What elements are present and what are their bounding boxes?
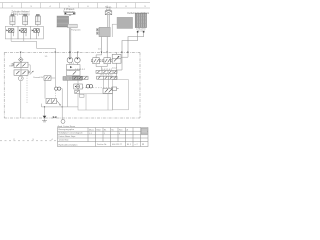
component on block B edge [112,87,119,90]
wire gauge down to tank line [20,81,22,118]
tank pictorial [117,17,133,28]
svg-text:Rev: Rev [119,129,123,131]
wire pump to CV1 [96,53,102,58]
cooler terminals [136,28,146,33]
svg-text:Pumpentr.: Pumpentr. [71,28,81,31]
cylinder CY2 [23,14,28,24]
cooler pictorial [135,13,146,27]
relief valve RV1 [112,53,121,64]
cylinder CY3 [35,14,40,24]
coupling symbol CP1 [55,87,61,90]
enclosure chain boundary [4,53,140,119]
valve box V2 [18,26,31,39]
svg-text:Mass: Mass [89,129,94,131]
wire strainer to pump [108,15,109,28]
small bowtie on chain [53,116,57,118]
svg-text:Lifting Lowering: Lifting Lowering [11,12,30,16]
wire motor shaft [69,28,70,58]
flow meter FM1 [86,85,92,88]
wire motor feed [69,14,70,16]
valve RB1 [103,88,113,93]
valve row LRA [73,76,89,79]
frame top ruler lines [0,3,150,8]
wire CV merge [96,64,107,71]
wire bus dashed lower [54,90,56,98]
manifold block MB2 [66,70,80,76]
manifold block MB1 [66,63,80,70]
wire pump to tank [112,24,117,37]
strainer label [105,6,112,11]
wire drain B [61,89,63,120]
wire MA1 down [44,80,46,98]
wire pump down A [101,37,103,53]
motor M1 pictorial [57,16,69,27]
valve row RRA [96,70,117,73]
wire to valve LV1 [20,60,22,63]
wire cooler line A [122,33,138,53]
subplate SP1 [63,77,82,81]
wire inside manifold A [85,94,87,110]
cylinder CY1 [10,14,15,24]
junction dots [44,106,63,107]
pump symbol PU1 [67,57,73,63]
valve box V3 [31,26,44,39]
svg-text:Drossel RV: Drossel RV [33,77,44,79]
wire left valve drop [77,80,79,84]
frame bottom ruler dotted [0,140,57,142]
wire subplate down [67,80,69,107]
svg-text:Nr.: Nr. [112,129,115,131]
drain arrow [43,116,47,119]
svg-text:Datum Name Gepr.: Datum Name Gepr. [59,135,77,138]
strainer F1 [105,11,112,15]
pump pictorial P1 [96,27,110,36]
wire CY2 to valve [24,24,26,26]
valve row RRB [97,76,117,79]
svg-text:Zeichn.-Nr.: Zeichn.-Nr. [97,144,107,146]
wire CY1 to valve [11,24,13,26]
wire bus into enclosure [54,53,56,88]
svg-text:12.04. Mue: 12.04. Mue [59,140,70,142]
svg-text:DBV: DBV [9,66,14,68]
title block logo cell [141,128,147,134]
pump symbol PU2 [75,53,81,63]
wire pump down B [106,37,108,53]
tank end bar [42,121,47,122]
accumulator block B [113,80,129,110]
svg-text:1.3.1 1.3.2: 1.3.1 1.3.2 [75,69,86,71]
wire coupling to drain column [61,88,62,90]
svg-text:A: A [142,142,144,146]
valve box V1 [5,26,18,39]
manifold outline block A [78,94,113,110]
wire return corner [41,104,43,107]
left cluster feed wire [20,53,22,59]
label cylinders group text [11,9,30,16]
svg-text:Schaltplan / circuit diagram: Schaltplan / circuit diagram [59,132,83,135]
check valve CV1 [91,58,101,64]
wire CY3 to valve [37,24,39,26]
valve LV1 [12,62,28,67]
valve LB1 [74,84,83,89]
wire cooler line B [128,33,144,53]
title block [58,128,149,147]
valve MA1 [44,76,51,81]
check valve CV2 [102,58,112,64]
svg-text:Hydraulikschaltplan: Hydraulikschaltplan [59,143,79,146]
wire RRB to RB1 [104,79,109,88]
svg-text:404.123.77: 404.123.77 [112,144,123,146]
coupling box [68,24,78,28]
junction marks on chain top [20,52,129,54]
gauge G2 [61,119,65,123]
wire pump to CV2 [106,53,108,58]
wire drain A [44,107,46,121]
check valve K1 [19,57,24,62]
terminal T1 [65,12,76,14]
wire relief ports [117,53,128,80]
valve LV2 [14,70,33,75]
svg-text:Bewegungsplan: Bewegungsplan [59,129,75,131]
valve LB2 small [75,90,80,93]
label left of LV1 [9,63,14,67]
svg-text:Blatt: Blatt [97,128,101,131]
pilot dashed wire [26,75,28,103]
title block texts [59,128,145,146]
wire return line [42,106,79,108]
frame top ruler numbers [11,6,146,8]
gauge G1 [18,76,23,81]
wire cylinder bus [11,39,55,53]
wire mid horizontal [82,87,113,89]
wire inside manifold A2 [107,94,109,110]
3-phase label [63,8,75,13]
wire LV1-LV2 link [21,65,30,73]
frame top ruler ticks [3,3,136,8]
wire MA1 link [51,77,55,79]
cluster CL1 [46,99,61,106]
small box on manifold A top [80,94,85,97]
